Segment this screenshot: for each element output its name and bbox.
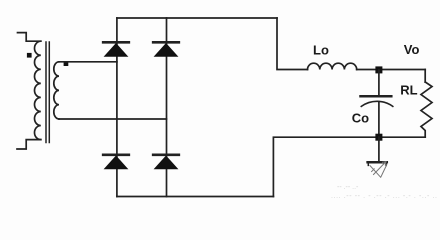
inductor Lo [308, 63, 357, 69]
wire secondary bottom lead to bridge middle rail [59, 118, 167, 120]
wire bridge positive output to inductor [277, 18, 308, 70]
svg-text:RL: RL [400, 83, 417, 98]
wire bridge bottom rail [117, 196, 274, 198]
ground [368, 162, 387, 178]
svg-text:-- .-- ..-: -- .-- ..- [337, 184, 359, 191]
diode D3 bottom-left [103, 155, 129, 169]
wire node Vo down to resistor RL [424, 70, 426, 83]
polarity dot primary [27, 53, 32, 58]
wire primary top lead [18, 33, 41, 42]
capacitor Co [361, 96, 393, 106]
polarity dot secondary [64, 61, 69, 66]
wire bridge top rail [117, 17, 277, 19]
diode D1 top-left [103, 42, 129, 56]
resistor RL [421, 82, 432, 137]
watermark [331, 184, 437, 200]
transformer T1 secondary winding [54, 62, 59, 119]
wire node to ground [378, 137, 380, 162]
diode D2 top-middle [153, 42, 179, 56]
diode D4 bottom-middle [153, 155, 179, 169]
wire bridge negative output bottom rail [273, 137, 425, 196]
wire primary bottom lead [17, 140, 41, 149]
wire bridge middle rail [166, 18, 168, 197]
wire capacitor bottom plate to bottom rail [378, 102, 380, 137]
svg-text:.... .-- -- . - .-- .- ... -.-: .... .-- -- . - .-- .- ... -.- . -..- .. [331, 193, 437, 200]
wire bridge left rail [116, 18, 118, 197]
node junction dot bottom [375, 134, 382, 141]
wire inductor to node Vo [357, 69, 426, 71]
transformer T1 core [46, 42, 49, 143]
svg-text:Co: Co [352, 110, 369, 125]
svg-text:Lo: Lo [313, 42, 329, 57]
wire node to capacitor top plate [378, 70, 380, 95]
node junction dot top (Vo node) [375, 66, 382, 73]
svg-text:Vo: Vo [404, 42, 420, 57]
transformer T1 primary winding [34, 41, 40, 139]
wire secondary top lead to bridge left rail [59, 61, 117, 63]
